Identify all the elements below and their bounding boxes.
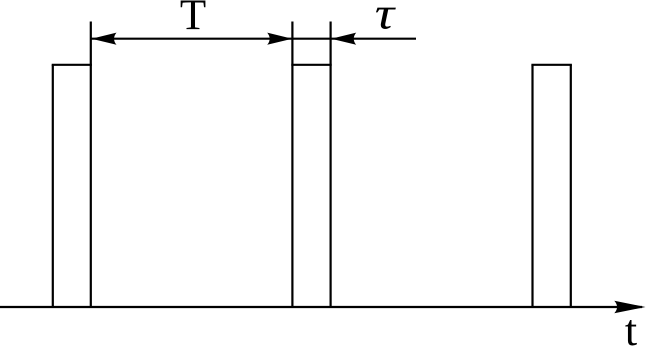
T arrowhead left xyxy=(92,33,117,45)
svg-text:τ: τ xyxy=(375,0,397,39)
svg-text:t: t xyxy=(625,306,637,346)
T arrowhead right xyxy=(267,33,292,45)
svg-text:T: T xyxy=(180,0,206,39)
tau dimension tail line xyxy=(331,38,416,40)
pulse 3 right edge xyxy=(570,65,572,307)
tau arrowhead xyxy=(331,33,356,45)
dimension line T xyxy=(92,38,293,40)
pulse 2 top xyxy=(291,64,331,66)
pulse 3 left edge xyxy=(531,65,533,307)
label tau xyxy=(375,0,397,39)
pulse 1 top xyxy=(52,64,92,66)
time axis xyxy=(0,306,642,308)
pulse 2 right edge / tau extension line xyxy=(330,22,332,308)
axis arrowhead xyxy=(614,301,645,314)
pulse 2 left edge / extension line xyxy=(291,22,293,308)
pulse 3 top xyxy=(531,64,572,66)
pulse 1 right edge / T extension line xyxy=(90,22,92,308)
pulse 1 left edge xyxy=(52,65,54,307)
dimension connector between T and tau arrows xyxy=(292,38,330,40)
